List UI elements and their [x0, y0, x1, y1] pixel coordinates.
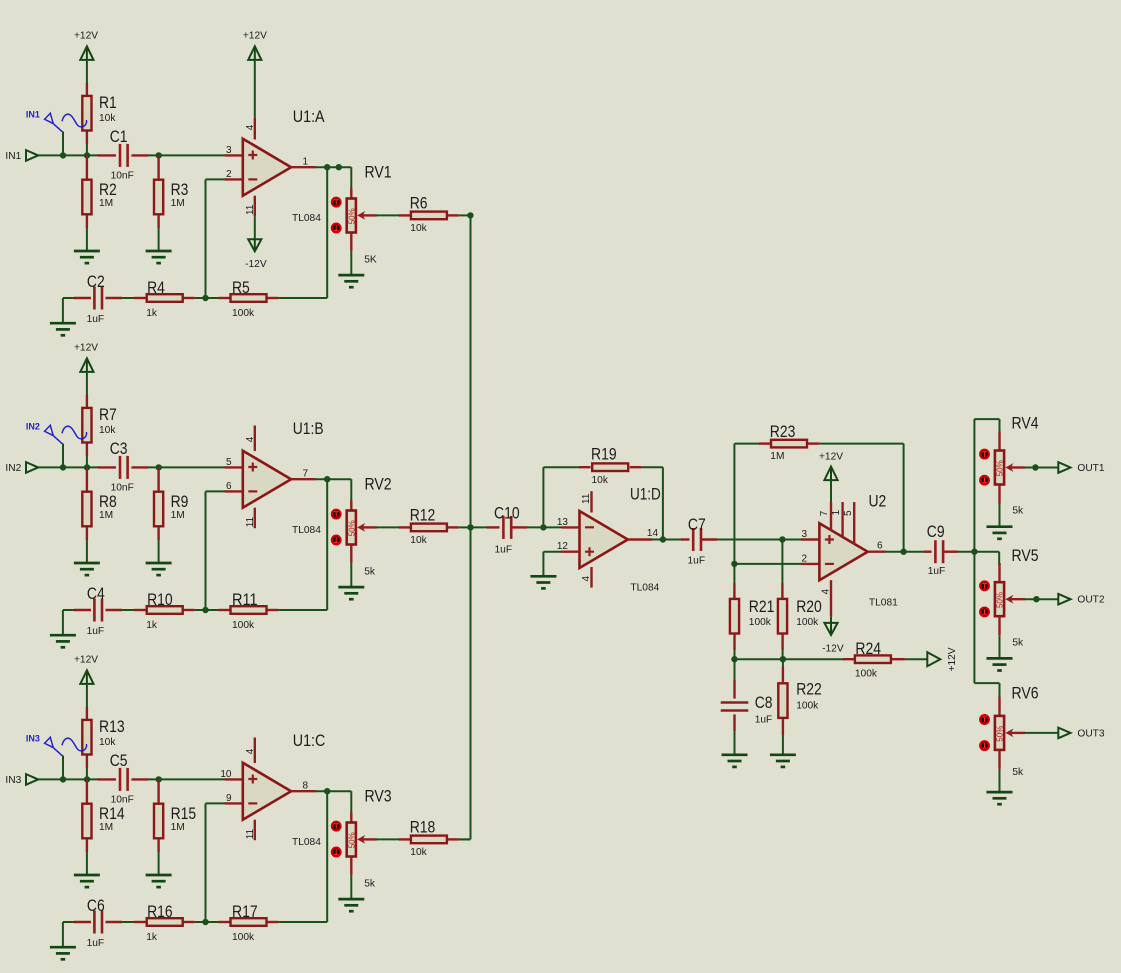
label OUT2: [1077, 595, 1105, 606]
pot RV5 down button: [980, 608, 989, 617]
svg-text:100k: 100k: [232, 932, 255, 943]
wire C10 to pin 13: [527, 526, 562, 528]
capacitor C4 pins: [74, 609, 122, 611]
svg-text:TL084: TL084: [292, 525, 321, 536]
svg-text:R9: R9: [171, 492, 189, 511]
power +12V (bias): [927, 647, 958, 671]
capacitor C4: [94, 599, 102, 622]
svg-text:R18: R18: [410, 817, 436, 836]
potentiometer RV2 top pin: [350, 501, 352, 511]
pin 11 stub: [254, 508, 256, 529]
svg-text:100k: 100k: [749, 617, 772, 628]
wire C8 to ground: [734, 731, 736, 754]
junction node IN3 b: [84, 776, 90, 782]
wire RV6 wiper to OUT3: [1025, 732, 1059, 734]
pot RV3 up button: [332, 822, 341, 831]
svg-text:10k: 10k: [99, 425, 116, 436]
pin number 7 (out): [303, 469, 309, 480]
power -12V (U2): [822, 623, 844, 655]
pin number 5 (U2): [843, 510, 854, 516]
wire mix bus vertical: [470, 215, 472, 839]
op-amp U1:A: [243, 139, 291, 196]
pot RV1 up button: [332, 198, 341, 207]
wire C8 drop: [734, 659, 736, 681]
ground under C2: [50, 323, 76, 335]
svg-text:1M: 1M: [171, 510, 185, 521]
pin number 11 label: [245, 828, 256, 839]
pin number 14: [647, 528, 659, 539]
label R18: [410, 817, 436, 836]
svg-text:U1:C: U1:C: [293, 731, 326, 750]
svg-text:10k: 10k: [592, 475, 609, 486]
terminal OUT2: [1058, 594, 1070, 605]
svg-text:RV1: RV1: [365, 163, 392, 182]
label R10: [147, 590, 173, 609]
value 1M of R14: [99, 822, 113, 833]
svg-text:1M: 1M: [99, 198, 113, 209]
pin number 3 (+): [226, 145, 232, 156]
power +12V (VCC1): [74, 31, 98, 60]
svg-text:U1:B: U1:B: [293, 419, 324, 438]
pin number 4 (U2): [820, 589, 831, 595]
value 100k of R11: [232, 620, 255, 631]
potentiometer RV6: [995, 716, 1005, 750]
junction bias C8: [731, 656, 737, 662]
svg-text:50%: 50%: [996, 460, 1005, 476]
value 5k of RV6: [1012, 767, 1024, 778]
resistor R20: [778, 599, 787, 634]
value 10k of R1: [99, 113, 116, 124]
power +12V (VCC2): [74, 343, 98, 372]
resistor R12 pins: [399, 526, 459, 528]
pin number 4 label: [245, 436, 256, 442]
label TL084 of U1:A: [292, 213, 321, 224]
capacitor C9 pins: [924, 551, 958, 553]
resistor R14: [82, 804, 91, 839]
pot RV1 down button: [332, 224, 341, 233]
pot RV4 wiper arrow: [1005, 463, 1025, 472]
pin 13 stub: [562, 526, 580, 528]
svg-text:10k: 10k: [99, 113, 116, 124]
svg-text:R17: R17: [232, 902, 258, 921]
pin 4 stub: [254, 426, 256, 452]
svg-text:2: 2: [226, 169, 232, 180]
label U2: [869, 492, 887, 511]
value 1k of R16: [146, 932, 158, 943]
power +12V (op-amp): [243, 31, 267, 60]
power -12V (op-amp): [245, 239, 267, 270]
svg-text:5k: 5k: [1012, 506, 1024, 517]
svg-text:5: 5: [226, 457, 232, 468]
svg-text:+12V: +12V: [947, 647, 958, 671]
svg-text:3: 3: [801, 529, 807, 540]
svg-text:1k: 1k: [146, 308, 158, 319]
resistor R19: [592, 463, 628, 471]
wire output to RV3: [350, 791, 352, 813]
svg-text:R4: R4: [147, 278, 165, 297]
svg-text:1uF: 1uF: [87, 314, 105, 325]
label U1:B: [293, 419, 324, 438]
value 1M of R9: [171, 510, 185, 521]
pot RV5 up button: [980, 581, 989, 590]
value 10k of R12: [410, 535, 427, 546]
wire R8 to ground: [86, 540, 88, 562]
wire RV3 to ground: [350, 875, 352, 899]
wire pin 4 to -12V: [830, 617, 832, 623]
value 5k of RV4: [1012, 506, 1024, 517]
pin number 3 (U2): [801, 529, 807, 540]
junction OUT1 wire: [1032, 464, 1038, 470]
resistor R18: [411, 836, 447, 844]
svg-text:13: 13: [557, 517, 569, 528]
value 1uF of C6: [87, 938, 105, 949]
junction pin2/R21: [731, 561, 737, 567]
ground under R9: [146, 563, 172, 575]
svg-text:10k: 10k: [410, 223, 427, 234]
svg-text:IN2: IN2: [26, 421, 40, 431]
svg-text:1k: 1k: [146, 620, 158, 631]
capacitor C1: [120, 144, 128, 167]
capacitor C7 pins: [681, 538, 717, 540]
value 1k of R10: [146, 620, 158, 631]
svg-text:IN1: IN1: [26, 109, 40, 119]
resistor R18 pins: [399, 838, 459, 840]
wire generator drop: [62, 444, 64, 468]
wire R10 to R11: [195, 609, 219, 611]
wire R23 left horiz: [734, 443, 760, 445]
svg-text:5k: 5k: [1012, 638, 1024, 649]
label R16: [147, 902, 173, 921]
resistor R24: [855, 655, 891, 663]
junction feedback node: [202, 607, 208, 613]
ground under R8: [74, 563, 100, 575]
wire R16 to R17: [195, 921, 219, 923]
capacitor C6: [94, 911, 102, 934]
label TL081 of U2: [869, 598, 898, 609]
svg-text:1: 1: [303, 157, 309, 168]
label U1:A: [293, 107, 325, 126]
resistor R24 pins: [843, 658, 905, 660]
capacitor C9: [935, 540, 943, 563]
value 100k of R24: [855, 669, 878, 680]
resistor R4: [147, 294, 183, 302]
wire RV4 to ground: [999, 504, 1001, 527]
ground under R14: [74, 875, 100, 887]
label R4: [147, 278, 165, 297]
wire C7 to U2 pin 3: [717, 539, 783, 541]
svg-text:TL084: TL084: [292, 213, 321, 224]
resistor R21 pins: [733, 583, 735, 650]
op-amp U2: [819, 523, 867, 580]
pin 1 stub: [841, 502, 843, 537]
wire R11 to feedback: [279, 609, 328, 611]
wire pin 12 to ground: [543, 551, 562, 553]
wire - input vertical: [205, 179, 207, 298]
resistor R17: [231, 918, 267, 926]
svg-text:OUT3: OUT3: [1077, 728, 1105, 739]
label RV6: [1012, 684, 1039, 703]
svg-text:C7: C7: [688, 515, 706, 534]
label IN1 terminal: [5, 151, 21, 162]
wire RV5 to ground: [999, 635, 1001, 658]
svg-text:50%: 50%: [996, 592, 1005, 608]
pot RV3 wiper arrow: [357, 835, 377, 844]
label R5: [232, 278, 250, 297]
wire C2 to R4: [122, 297, 135, 299]
svg-text:1uF: 1uF: [87, 938, 105, 949]
pot RV5 bottom pin: [998, 616, 1000, 635]
value 10k of R6: [410, 223, 427, 234]
capacitor C7: [693, 528, 701, 551]
value 1M of R2: [99, 198, 113, 209]
pin number 2 (U2): [801, 553, 807, 564]
svg-text:100k: 100k: [796, 617, 819, 628]
resistor R8: [82, 492, 91, 527]
label R13: [99, 717, 125, 736]
resistor R23: [771, 440, 807, 448]
wire feedback top left: [543, 466, 580, 468]
wire ground drop: [62, 298, 64, 323]
capacitor C3: [120, 456, 128, 479]
wire ground to C-fb: [63, 297, 75, 299]
value 10k of R18: [410, 847, 427, 858]
potentiometer RV3: [347, 823, 357, 857]
wire feed RV4 seg2: [974, 418, 999, 420]
value 10k of R7: [99, 425, 116, 436]
resistor R2: [82, 180, 91, 215]
wire feedback vertical: [326, 167, 328, 298]
ground under RV3: [338, 899, 364, 911]
pot RV3 down button: [332, 848, 341, 857]
svg-text:8: 8: [303, 781, 309, 792]
resistor R21: [730, 599, 739, 634]
wire ground drop: [62, 922, 64, 947]
value 5k of RV3: [364, 879, 376, 890]
wire IN2 row: [38, 466, 99, 468]
svg-text:10: 10: [220, 769, 232, 780]
svg-text:R1: R1: [99, 93, 117, 112]
pin number 7 (U2): [819, 510, 830, 516]
wire feedback up: [542, 467, 544, 527]
wire U1:D output: [652, 539, 663, 541]
generator probe IN3 (blue): [26, 733, 87, 756]
junction OUT2 wire: [1033, 596, 1039, 602]
label OUT3: [1077, 728, 1105, 739]
pin 4 stub: [254, 738, 256, 764]
value 5K of RV1: [364, 255, 377, 266]
resistor R14 pins: [86, 779, 88, 852]
label R15: [171, 804, 197, 823]
resistor R1 pins: [86, 83, 88, 144]
potentiometer RV3 top pin: [350, 813, 352, 823]
wire R22 drop: [782, 659, 784, 668]
potentiometer RV4 top pin: [998, 431, 1000, 450]
svg-text:1M: 1M: [770, 451, 784, 462]
ground at U1:D pin 12: [530, 576, 556, 588]
junction pin3/R20: [779, 536, 785, 542]
label R3: [171, 180, 189, 199]
svg-text:R7: R7: [99, 405, 117, 424]
wire C5 to op-amp +: [148, 778, 226, 780]
wire - input horiz: [206, 802, 227, 804]
label R14: [99, 804, 125, 823]
svg-text:4: 4: [581, 576, 592, 582]
wire bus to C10: [471, 526, 489, 528]
resistor R11: [231, 606, 267, 614]
potentiometer RV4: [995, 451, 1005, 485]
resistor R15 pins: [157, 779, 159, 852]
ground under R15: [146, 875, 172, 887]
junction output/feedback: [324, 164, 330, 170]
value 100k of R20: [796, 617, 819, 628]
label R11: [232, 590, 258, 609]
pin number 12: [557, 541, 569, 552]
wire bias row: [735, 658, 845, 660]
label RV4: [1012, 414, 1039, 433]
terminal IN1: [26, 150, 38, 161]
svg-text:12: 12: [557, 541, 569, 552]
wire C6 to R16: [122, 921, 135, 923]
pin number 1 (U2): [831, 509, 842, 515]
pin stub - input: [225, 178, 243, 180]
pin 2 stub (U2): [801, 563, 819, 565]
svg-text:6: 6: [877, 541, 883, 552]
svg-text:U1:A: U1:A: [293, 107, 325, 126]
svg-text:R6: R6: [410, 193, 428, 212]
ground under R3: [146, 251, 172, 263]
resistor R5 pins: [218, 297, 278, 299]
resistor R5: [231, 294, 267, 302]
ground under C8: [722, 755, 748, 767]
wire generator drop: [62, 756, 64, 780]
svg-text:R19: R19: [591, 445, 617, 464]
wire generator drop: [62, 132, 64, 156]
pin 11 stub: [254, 820, 256, 841]
svg-text:RV3: RV3: [365, 787, 392, 806]
value 10nF of C1: [111, 170, 134, 181]
label U1:C: [293, 731, 326, 750]
wire - input vertical: [205, 803, 207, 922]
junction node IN2 a: [60, 464, 66, 470]
pin number 10 (+): [220, 769, 232, 780]
value 10nF of C5: [111, 794, 134, 805]
pin number 4 label: [245, 748, 256, 754]
label C7: [688, 515, 706, 534]
junction bus mid (R12): [467, 524, 473, 530]
value 10nF of C3: [111, 482, 134, 493]
svg-text:1: 1: [831, 509, 842, 515]
wire R4 to R5: [195, 297, 219, 299]
op-amp U1:C: [243, 763, 291, 820]
svg-text:1M: 1M: [99, 510, 113, 521]
svg-text:4: 4: [820, 589, 831, 595]
pin stub - input: [225, 490, 243, 492]
svg-text:RV4: RV4: [1012, 414, 1039, 433]
junction feedback node: [202, 295, 208, 301]
wire feed RV6 seg2: [974, 682, 999, 684]
potentiometer RV5: [995, 582, 1005, 616]
wire RV4 wiper to OUT1: [1025, 467, 1059, 469]
svg-text:1M: 1M: [99, 822, 113, 833]
junction feedback node: [202, 919, 208, 925]
svg-text:RV2: RV2: [365, 475, 392, 494]
wire wiper to R6: [376, 214, 400, 216]
value 1M of R8: [99, 510, 113, 521]
wire R15 to ground: [158, 852, 160, 874]
resistor R3 pins: [157, 155, 159, 228]
svg-text:R12: R12: [410, 505, 436, 524]
capacitor C10: [503, 516, 511, 539]
resistor R13: [82, 720, 91, 755]
svg-text:-12V: -12V: [822, 644, 844, 655]
terminal IN2: [26, 462, 38, 473]
value 10k of R13: [99, 737, 116, 748]
pin 4 stub (U1:D): [590, 567, 592, 588]
label RV1: [365, 163, 392, 182]
wire - input horiz: [206, 178, 227, 180]
potentiometer RV6 top pin: [998, 697, 1000, 716]
svg-text:TL081: TL081: [869, 598, 898, 609]
svg-text:R23: R23: [770, 422, 796, 441]
label OUT1: [1077, 463, 1105, 474]
label R6: [410, 193, 428, 212]
value 5k of RV2: [364, 567, 376, 578]
wire R23 right horiz: [819, 443, 904, 445]
svg-text:+12V: +12V: [74, 655, 98, 666]
label C9: [927, 522, 945, 541]
pin 6 stub output: [868, 551, 886, 553]
svg-text:1M: 1M: [171, 822, 185, 833]
label R17: [232, 902, 258, 921]
ground under C6: [50, 947, 76, 959]
ground under RV1: [338, 275, 364, 287]
svg-text:10k: 10k: [99, 737, 116, 748]
ground under C4: [50, 635, 76, 647]
value 1uF of C2: [87, 314, 105, 325]
svg-text:5K: 5K: [364, 255, 377, 266]
junction bias R22: [780, 656, 786, 662]
value 100k of R17: [232, 932, 255, 943]
resistor R6 pins: [399, 214, 459, 216]
label TL084 of U1:B: [292, 525, 321, 536]
wire R22 to ground: [782, 735, 784, 754]
value 100k of R21: [749, 617, 772, 628]
label TL084 of U1:C: [292, 837, 321, 848]
label IN2 terminal: [5, 463, 21, 474]
junction output node: [971, 549, 977, 555]
svg-text:R15: R15: [171, 804, 197, 823]
label C10: [494, 503, 520, 522]
junction node IN3 a: [60, 776, 66, 782]
capacitor C2: [94, 287, 102, 310]
label R2: [99, 180, 117, 199]
label U1:D: [630, 485, 661, 504]
pot RV1 bottom pin: [350, 232, 352, 250]
svg-text:R13: R13: [99, 717, 125, 736]
svg-text:R2: R2: [99, 180, 117, 199]
svg-text:R16: R16: [147, 902, 173, 921]
svg-text:R8: R8: [99, 492, 117, 511]
resistor R13 pins: [86, 707, 88, 768]
svg-text:R24: R24: [855, 639, 881, 658]
pin stub - input: [225, 802, 243, 804]
wire output node: [316, 790, 352, 792]
pot RV4 bottom pin: [998, 484, 1000, 503]
svg-text:50%: 50%: [996, 726, 1005, 742]
svg-text:1uF: 1uF: [928, 566, 946, 577]
pin 11 stub (U1:D): [590, 491, 592, 512]
value 100k of R22: [796, 701, 819, 712]
